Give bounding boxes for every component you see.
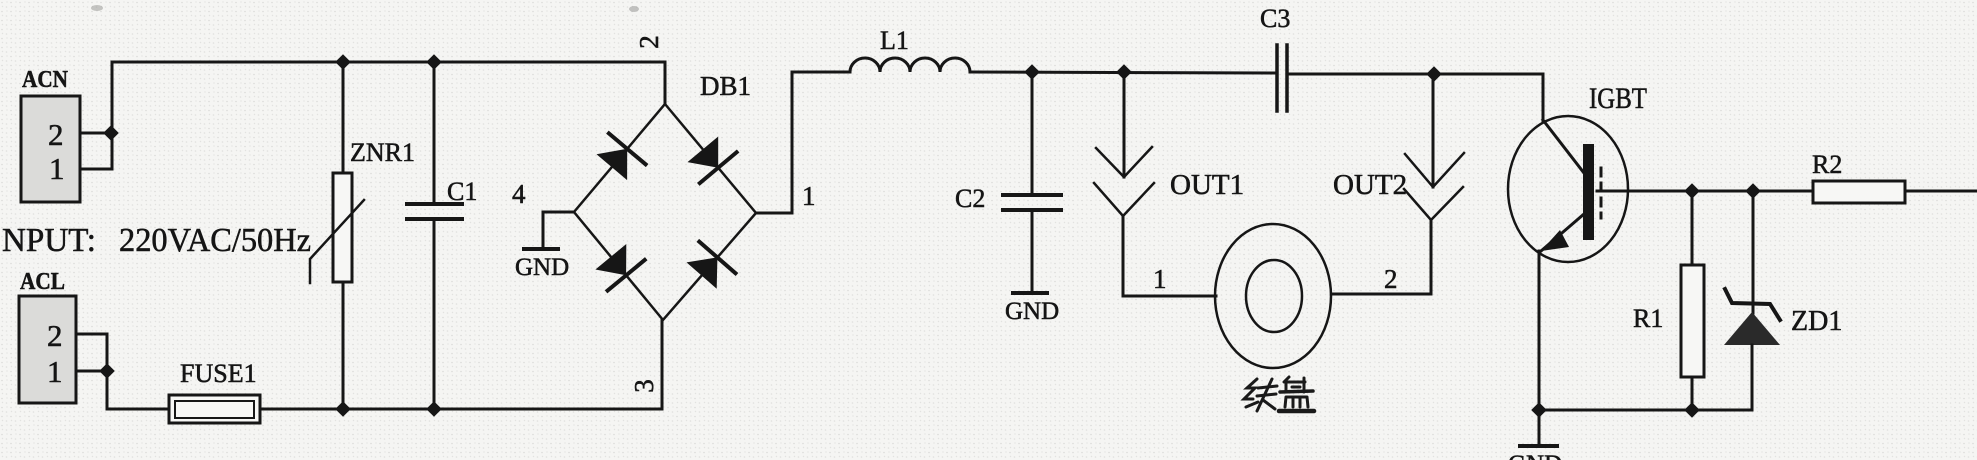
svg-text:C1: C1 [447,177,477,206]
zener ZD1 triangle [1724,312,1780,345]
diode bridge top-left [597,133,646,180]
IGBT label [1589,82,1647,115]
node OUT1 junction [1116,64,1132,80]
wire bottom rail to fuse [107,408,169,411]
svg-text:ACL: ACL [20,269,65,295]
diode bridge bottom-left [595,244,644,291]
ground GND label (bridge) [515,254,569,281]
resistor R2 body [1813,181,1905,203]
svg-text:2: 2 [1384,264,1398,294]
inductor L1 [850,58,970,72]
coil pin1 label [1153,264,1167,294]
node C1 bottom [426,401,442,417]
IGBT emitter stroke [1541,214,1584,251]
wire OUT2 to coil [1332,220,1431,294]
OUT2 label [1333,169,1407,201]
svg-text:C2: C2 [955,184,985,213]
svg-text:ZD1: ZD1 [1791,306,1842,337]
coil outer ring [1215,224,1331,368]
capacitor C2 label [955,184,985,213]
node OUT2 junction [1426,66,1442,82]
wire top-left rail [112,61,665,64]
node ZNR1 bottom [335,401,351,417]
svg-text:R2: R2 [1812,150,1842,179]
pin 3 label (rotated) [629,379,659,393]
svg-text:ZNR1: ZNR1 [350,138,415,167]
svg-text:FUSE1: FUSE1 [180,359,257,388]
wire C2 to ground [1031,210,1034,292]
svg-text:DB1: DB1 [700,71,751,101]
svg-text:GND: GND [1005,298,1059,325]
bridge diamond edges [574,104,756,320]
text INPUT rating [2,222,311,259]
wire bridge pin3 to bottom rail [661,320,664,409]
svg-text:1: 1 [47,354,63,389]
wire to bottom ground [1538,410,1541,445]
capacitor C2 plates [1003,193,1061,197]
svg-text:R1: R1 [1633,304,1663,333]
svg-text:NPUT:: NPUT: [2,222,96,259]
wire bottom-right rail [1539,409,1752,412]
zener ZD1 cathode bar [1725,289,1780,320]
svg-text:GND: GND [1508,451,1562,460]
svg-text:OUT1: OUT1 [1170,169,1244,201]
wire ZD1 to bottom rail [1751,345,1754,410]
svg-text:2: 2 [48,117,64,152]
wire top rail to IGBT collector [1542,74,1545,121]
svg-text:1: 1 [49,151,65,186]
wire bridge pin4 to ground [543,212,574,248]
IGBT dashed gate line [1600,168,1603,218]
ACN pin 2 stub [80,132,111,135]
ACL pin 2 stub [76,333,107,336]
scan speck top-left [91,5,103,11]
wire bridge pin1 to top rail right [756,72,850,213]
IGBT emitter arrow [1541,230,1569,251]
svg-text:C3: C3 [1260,4,1290,33]
ACN pin 1 stub [80,168,112,171]
wire C1 to bottom rail [433,219,436,409]
svg-text:2: 2 [634,35,664,49]
wire junction to C2 [1031,72,1034,194]
connector OUT2 socket [1404,187,1463,220]
node ACL junction [99,363,115,379]
wire top rail to ZNR1 [342,62,345,173]
connector ACN body [21,96,80,202]
OUT1 label [1170,169,1244,201]
diode bridge bottom-right [687,242,736,289]
wire R1 to bottom rail [1691,377,1694,410]
wire L1 to C3 [970,72,1276,73]
svg-text:3: 3 [629,379,659,393]
wire to OUT1 arrow [1123,72,1126,177]
wire top rail to bridge pin2 [664,62,667,104]
coil pin2 label [1384,264,1398,294]
coil inner ring [1246,260,1302,332]
inductor L1 label [880,26,909,55]
connector OUT1 arrow [1096,147,1152,177]
svg-text:1: 1 [802,181,816,211]
varistor ZNR1 body [333,173,352,282]
ground GND label (C2) [1005,298,1059,325]
connector ACN label [22,67,69,93]
capacitor C3 label [1260,4,1290,33]
wire bottom rail fuse to bridge [260,408,662,411]
pin 1 label [802,181,816,211]
connector OUT2 arrow [1405,153,1464,187]
ground bar (bridge) [524,247,558,251]
IGBT bar [1583,144,1594,240]
ACL pin 1 stub [76,370,107,373]
pin 2 label (rotated) [634,35,664,49]
IGBT collector stroke [1543,120,1584,173]
capacitor C3 plates [1275,45,1279,111]
resistor R1 label [1633,304,1663,333]
svg-text:L1: L1 [880,26,909,55]
wire to OUT2 arrow [1432,74,1435,187]
IGBT body circle [1508,116,1628,262]
wire gate to R1 [1691,191,1694,265]
coil chinese label 线盘 [1244,377,1314,411]
bridge rectifier DB1 label [700,71,751,101]
wire top rail to C1 [433,62,436,203]
wire ZNR1 to bottom rail [342,282,345,409]
connector OUT1 socket [1094,183,1154,216]
svg-text:OUT2: OUT2 [1333,169,1407,201]
wire OUT1 to coil [1123,216,1216,296]
svg-text:GND: GND [515,254,569,281]
node R1 bottom [1684,402,1700,418]
varistor ZNR1 diagonal [310,200,364,283]
wire ACL to bottom rail [106,334,109,409]
node C1 top [426,54,442,70]
connector ACL label [20,269,65,295]
svg-text:IGBT: IGBT [1589,82,1647,115]
pin 4 label [512,179,526,209]
fuse FUSE1 [169,395,260,423]
ground GND label (bottom, clipped) [1508,451,1562,460]
capacitor C1 label [447,177,477,206]
node emitter/ground junction [1531,402,1547,418]
svg-text:2: 2 [47,318,63,353]
node ZNR1 top [335,54,351,70]
svg-text:ACN: ACN [22,67,69,93]
node L1/C2 junction [1024,64,1040,80]
resistor R1 body [1681,265,1704,377]
svg-text:4: 4 [512,179,526,209]
capacitor C1 plates [407,202,462,206]
wire gate lead [1597,190,1813,193]
wire emitter down [1538,251,1541,410]
wire R2 to edge [1905,190,1977,193]
fuse FUSE1 label [180,359,257,388]
resistor R2 label [1812,150,1842,179]
node R1 gate junction [1684,183,1700,199]
scan speck above bridge [629,6,639,12]
node ZD1 gate junction [1745,183,1761,199]
zener ZD1 label [1791,306,1842,337]
node ACN junction [103,125,119,141]
wire ACN to top rail [111,62,114,169]
wire gate to ZD1 [1752,191,1755,313]
ground bar (C2) [1013,291,1047,295]
svg-text:220VAC/50Hz: 220VAC/50Hz [119,222,311,259]
svg-text:1: 1 [1153,264,1167,294]
ground bar (bottom) [1520,444,1557,448]
connector ACL body [19,296,76,403]
wire C3 to OUT2/IGBT [1287,73,1543,76]
diode bridge top-right [688,137,737,184]
varistor ZNR1 label [350,138,415,167]
